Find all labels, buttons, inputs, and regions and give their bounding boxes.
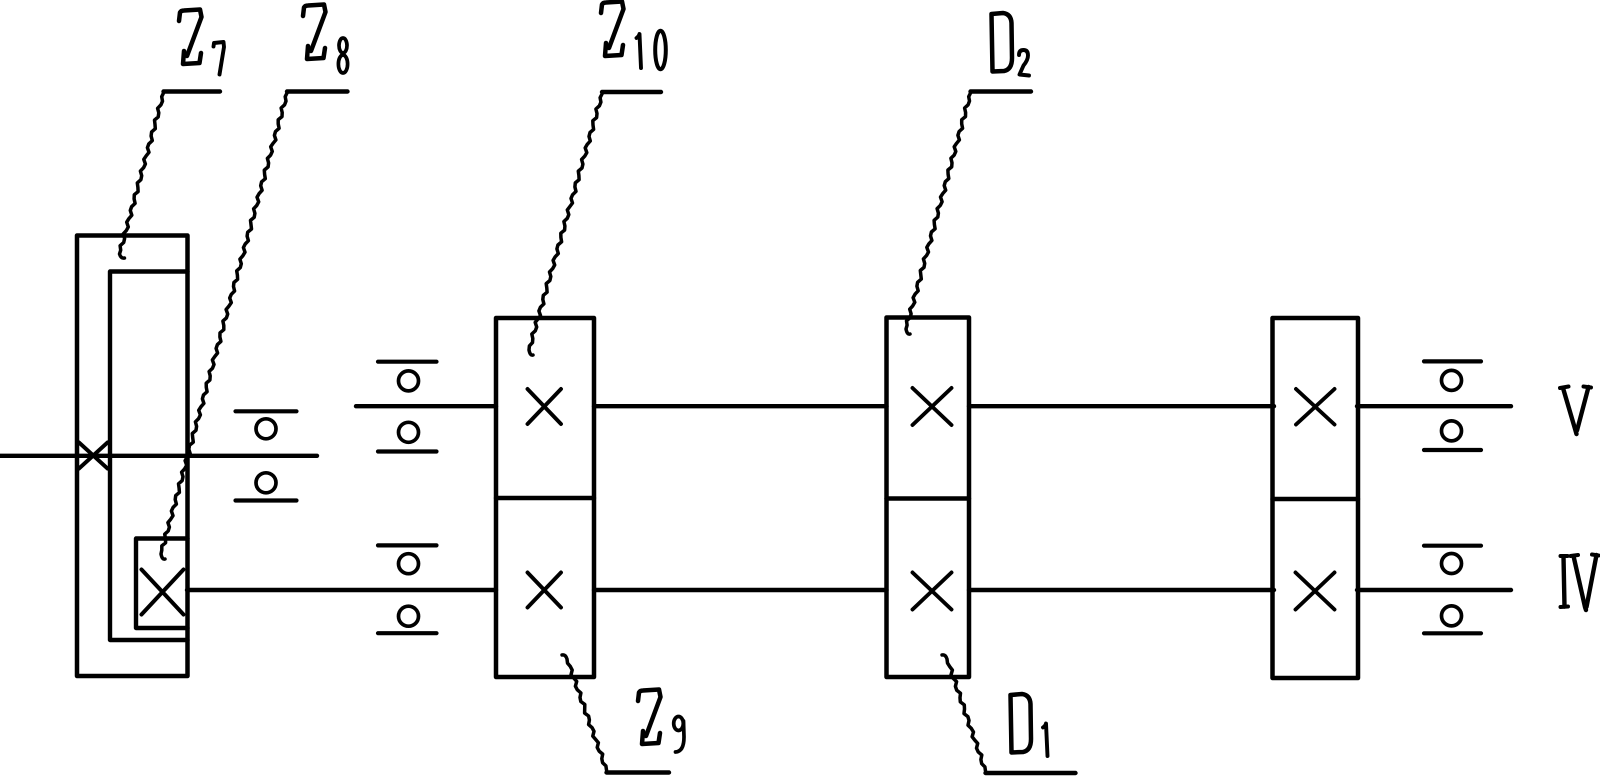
bearing shaft IV right: [1424, 546, 1481, 634]
label Z8 underline: [287, 89, 348, 93]
label Z10 subscript 1: [637, 34, 642, 68]
gear block Z7 inner slot: [110, 272, 188, 641]
label Z8 letter Z: [303, 5, 326, 60]
label D1 letter D: [1011, 694, 1032, 753]
bearing on input shaft: [236, 411, 297, 500]
leader line D1: [942, 655, 986, 771]
leader line Z8: [161, 93, 287, 559]
label D1 underline: [986, 771, 1076, 775]
gear Z9 cross: [528, 573, 562, 608]
label Z7 underline: [164, 89, 221, 93]
clutch D2 cross: [913, 388, 952, 425]
leader line Z9: [562, 655, 607, 770]
label Z8 subscript 8: [338, 38, 347, 73]
leader line D2: [906, 93, 971, 334]
label Z7 subscript 7: [214, 42, 225, 75]
divider right box: [1273, 497, 1359, 501]
right upper gear cross: [1296, 389, 1335, 425]
divider D2/D1: [887, 496, 970, 500]
label D1 subscript 1: [1043, 724, 1048, 757]
label D2 underline: [971, 89, 1032, 93]
gear Z8 box: [136, 539, 188, 629]
clutch D1 cross: [913, 573, 952, 610]
gear block Z7 outer housing: [77, 236, 188, 677]
label V shaft V: [1560, 387, 1591, 435]
right lower gear cross: [1296, 573, 1335, 610]
label D2 letter D: [992, 13, 1013, 72]
gear pair box right: [1273, 318, 1359, 678]
clutch box D2/D1: [887, 318, 970, 678]
label Z10 subscript 0: [655, 31, 666, 70]
label Z7 letter Z: [179, 10, 202, 65]
divider Z10/Z9: [496, 496, 594, 500]
bearing shaft V left: [378, 362, 437, 452]
gear pair box Z10/Z9: [496, 318, 594, 677]
shaft input (III): [0, 454, 317, 458]
gear Z10 cross: [528, 389, 562, 424]
shaft V upper: [356, 404, 1511, 408]
label Z9 subscript 9: [674, 717, 684, 753]
label D2 subscript 2: [1019, 50, 1029, 76]
label Z10 underline: [602, 90, 661, 94]
label Z9 underline: [607, 770, 670, 774]
leader line Z7: [120, 93, 164, 258]
leader line Z10: [529, 94, 602, 355]
gear Z8 cross: [142, 570, 184, 615]
bearing shaft IV left: [378, 545, 437, 633]
label IV shaft IV: [1561, 555, 1599, 611]
clutch cross on input shaft: [79, 443, 108, 469]
bearing shaft V right: [1424, 361, 1481, 450]
label Z10 letter Z: [601, 2, 624, 57]
shaft IV lower: [187, 588, 1511, 592]
label Z9 letter Z: [638, 690, 661, 745]
